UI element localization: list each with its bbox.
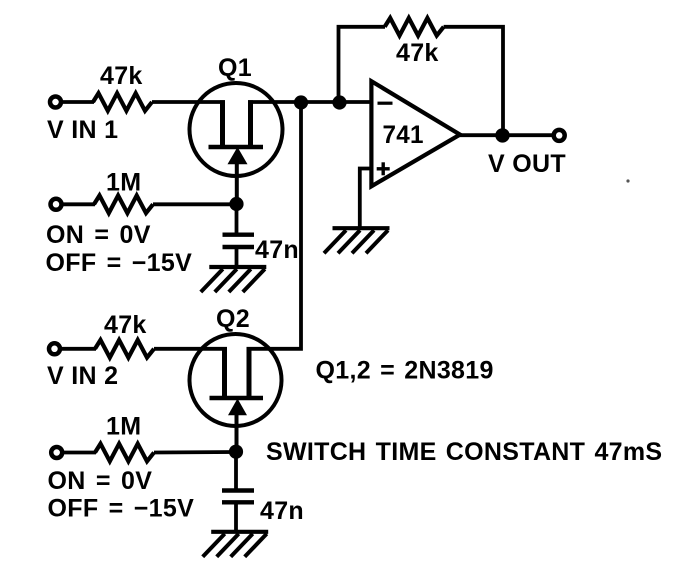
input terminal V IN 2 [49, 343, 60, 354]
svg-text:Q1: Q1 [218, 54, 252, 82]
wire R3 to Q2 drain [154, 347, 227, 351]
wire terminal to R2 [61, 202, 95, 206]
wire Q1 source to node A [248, 100, 372, 104]
wire R4 to Q2 gate [154, 450, 236, 454]
resistor R3 47k [95, 340, 154, 358]
svg-text:Q2: Q2 [216, 305, 250, 333]
wire op-amp output [458, 133, 554, 137]
svg-text:OFF = −15V: OFF = −15V [48, 494, 195, 522]
feedback wire right drop [444, 27, 503, 134]
svg-text:47n: 47n [260, 497, 304, 525]
svg-text:741: 741 [383, 122, 424, 149]
wire R2 to Q1 gate [153, 202, 237, 206]
capacitor C1 47n [223, 235, 255, 247]
svg-text:47k: 47k [104, 311, 147, 339]
node A junction dot [294, 95, 308, 109]
svg-text:V IN 1: V IN 1 [47, 116, 118, 144]
input terminal control 2 [51, 447, 62, 458]
wire gate node to C1 [235, 204, 239, 233]
svg-text:OFF = −15V: OFF = −15V [46, 249, 193, 277]
transistor Q2 2N3819 [190, 334, 282, 452]
resistor R4 1M [95, 444, 154, 462]
resistor R2 1M [94, 196, 153, 214]
resistor R5 47k feedback [385, 18, 444, 36]
ground op-amp [324, 228, 390, 253]
input terminal control 1 [51, 199, 62, 210]
wire C1 to ground [235, 249, 239, 266]
svg-text:47k: 47k [100, 62, 143, 90]
input terminal V IN 1 [50, 97, 61, 108]
op-amp U1 741 [371, 81, 460, 186]
svg-text:ON = 0V: ON = 0V [48, 467, 153, 495]
ground C1 [201, 267, 266, 292]
speck artifact [626, 179, 629, 182]
node B feedback tap dot [332, 95, 346, 109]
output terminal V OUT [554, 130, 565, 141]
wire terminal to R4 [62, 451, 96, 455]
svg-text:1M: 1M [106, 413, 141, 441]
wire gate node to C2 [234, 452, 238, 489]
resistor R1 47k [93, 93, 152, 111]
svg-text:Q1,2 = 2N3819: Q1,2 = 2N3819 [316, 356, 494, 384]
node Q1 gate junction dot [229, 197, 243, 211]
wire C2 to ground [234, 504, 238, 531]
svg-text:SWITCH TIME CONSTANT 47mS: SWITCH TIME CONSTANT 47mS [266, 438, 662, 466]
svg-text:47n: 47n [255, 236, 299, 264]
wire terminal to R3 [60, 347, 97, 351]
wire node A down to Q2 [247, 103, 302, 349]
wire op-amp noninverting input to ground [360, 169, 372, 227]
svg-text:ON = 0V: ON = 0V [46, 221, 151, 249]
svg-text:1M: 1M [106, 169, 141, 197]
wire terminal to R1 [61, 100, 95, 104]
svg-text:V IN 2: V IN 2 [47, 362, 118, 390]
svg-text:V OUT: V OUT [488, 150, 566, 178]
node output junction dot [495, 128, 509, 142]
wire R1 to Q1 drain [152, 100, 225, 104]
ground C2 [203, 532, 269, 557]
svg-text:47k: 47k [396, 39, 439, 67]
transistor Q1 2N3819 [190, 83, 283, 204]
capacitor C2 47n [222, 491, 254, 503]
feedback wire left rise [339, 27, 386, 103]
node Q2 gate junction dot [229, 445, 243, 459]
